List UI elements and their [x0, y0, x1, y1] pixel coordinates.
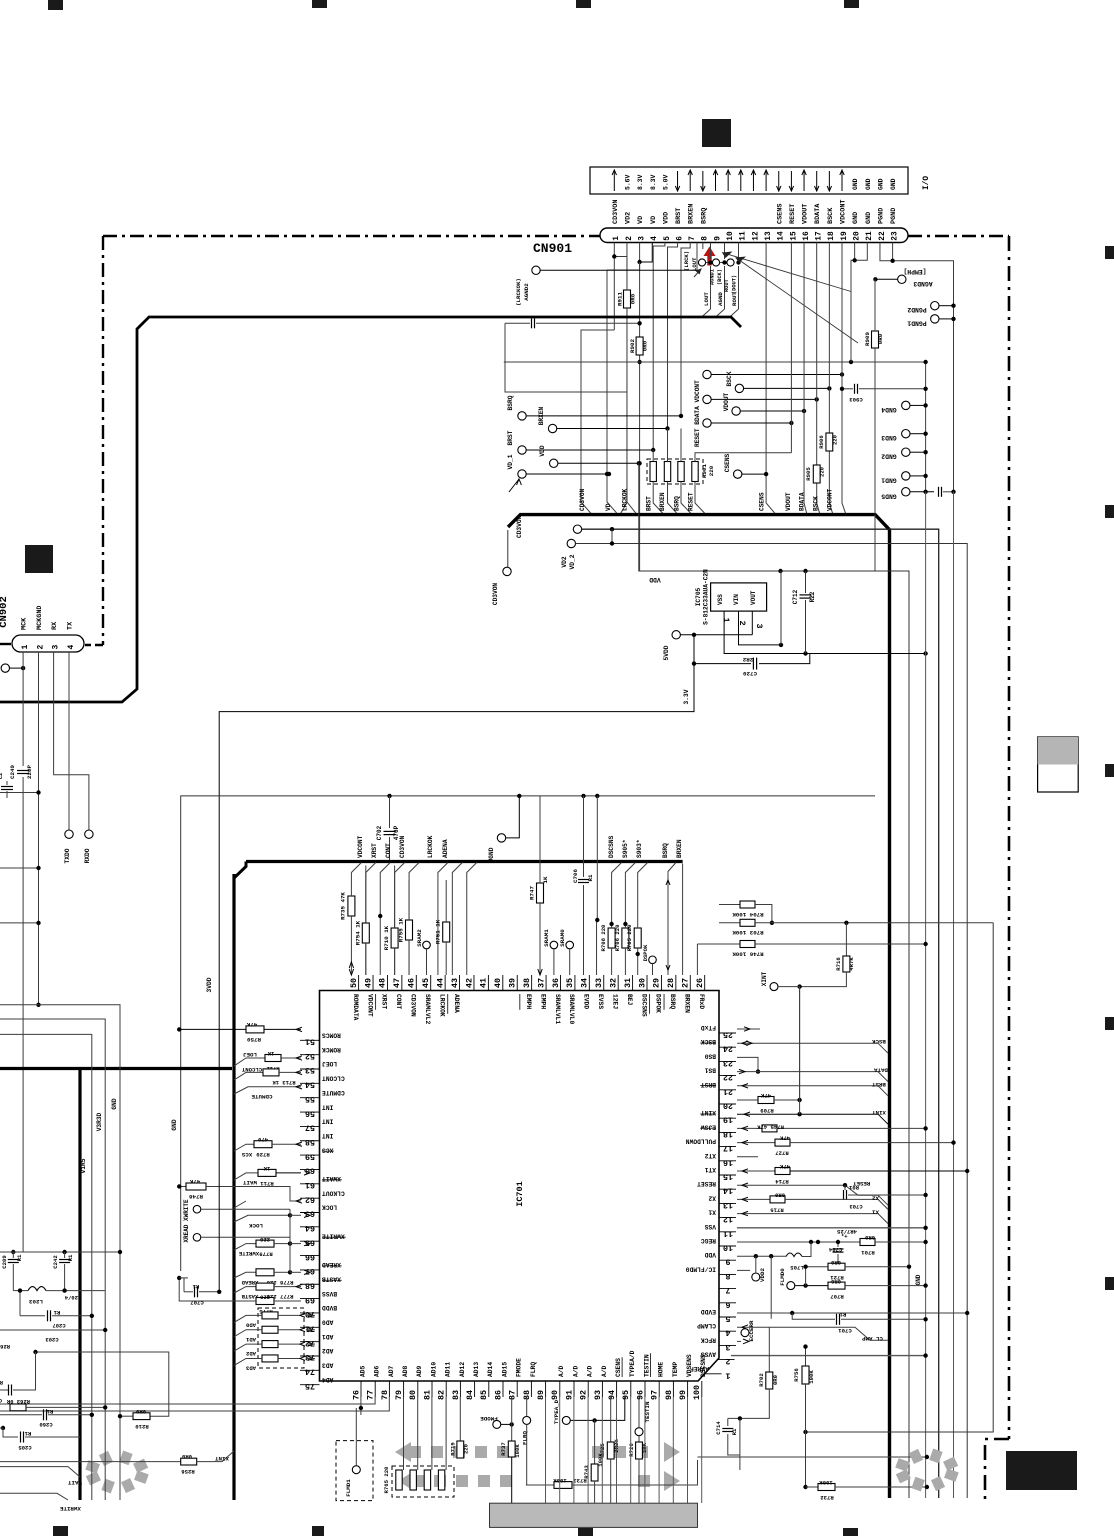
svg-text:XT2: XT2 — [704, 1152, 716, 1159]
svg-text:AD8: AD8 — [402, 1365, 409, 1377]
svg-text:14: 14 — [723, 1186, 733, 1196]
svg-text:INT: INT — [322, 1132, 334, 1139]
svg-text:A/D: A/D — [601, 1365, 608, 1377]
svg-text:40: 40 — [493, 978, 503, 988]
wire CN901 pin16 to bus — [804, 243, 807, 515]
svg-text:100K: 100K — [808, 1370, 815, 1384]
node TESTIN — [635, 1428, 643, 1436]
svg-text:R754 1K: R754 1K — [354, 920, 361, 945]
svg-text:V1R5: V1R5 — [80, 1158, 87, 1173]
wire pin44 LRCKOK — [438, 863, 448, 976]
wire MCK lower — [22, 777, 24, 1252]
svg-text:CD3VON: CD3VON — [492, 583, 499, 606]
svg-text:AD9: AD9 — [416, 1365, 423, 1377]
resistor R765 element — [396, 1470, 402, 1490]
dash-dot border top right — [908, 235, 1009, 237]
svg-text:47K: 47K — [189, 1178, 200, 1185]
node FLMD1 — [352, 1466, 360, 1474]
node left of CN902 — [1, 664, 9, 672]
svg-text:41: 41 — [479, 978, 489, 988]
svg-text:61: 61 — [305, 1180, 315, 1190]
svg-text:RX: RX — [51, 621, 59, 630]
svg-text:XWRITE: XWRITE — [59, 1505, 80, 1512]
node PGND1 — [931, 315, 939, 323]
svg-text:LRCKOK: LRCKOK — [427, 835, 434, 858]
IC701 pin 98 — [672, 1381, 674, 1397]
capacitor GND5 — [938, 487, 940, 497]
svg-text:IC705: IC705 — [695, 587, 702, 606]
svg-text:AGND2: AGND2 — [523, 283, 530, 301]
node TXDO — [65, 830, 73, 838]
svg-text:AGND: AGND — [717, 292, 724, 306]
svg-text:15: 15 — [723, 1172, 733, 1182]
IC701 pin 47 — [401, 975, 403, 991]
resistor R263 — [10, 1404, 26, 1411]
capacitor C703 R01 — [844, 1185, 846, 1190]
capacitor C712 R22 — [805, 571, 807, 593]
wire CLAMP to bus — [769, 1327, 888, 1340]
node VD_2 upper — [573, 525, 581, 533]
svg-text:DSPOK: DSPOK — [642, 944, 649, 961]
IC701 pin 97 — [658, 1381, 660, 1397]
svg-text:X2: X2 — [871, 1194, 878, 1201]
wire pin14 RESET — [737, 1185, 888, 1205]
node GND2 — [902, 448, 910, 456]
wire pin9 VDD — [737, 1255, 786, 1257]
svg-text:C712: C712 — [792, 589, 799, 604]
resistor R756 100K — [805, 1347, 807, 1366]
wire pin27 BRXEN — [682, 864, 684, 976]
arrow AD2 — [300, 1342, 305, 1346]
IC701 pin 99 — [687, 1381, 689, 1397]
wire BRXEN to bus — [668, 482, 679, 515]
wire horizontal y795.9 — [181, 795, 875, 797]
svg-text:X1: X1 — [708, 1209, 716, 1216]
svg-text:79: 79 — [394, 1390, 404, 1400]
I/O arrow pin 10 — [727, 171, 729, 191]
svg-text:R702: R702 — [758, 1373, 765, 1387]
svg-text:TXDO: TXDO — [64, 848, 71, 863]
svg-text:CDMUTE: CDMUTE — [322, 1089, 345, 1096]
svg-text:R1: R1 — [0, 1379, 3, 1386]
resistor R726 10K — [636, 1442, 643, 1459]
svg-text:AD7: AD7 — [388, 1365, 395, 1377]
wire pin5 EVDD — [737, 1312, 967, 1314]
wire x181 vertical — [180, 796, 182, 1272]
wire LOUT vertical — [710, 243, 712, 260]
svg-text:2: 2 — [36, 645, 45, 650]
svg-text:47K: 47K — [779, 1163, 790, 1170]
svg-text:0R0: 0R0 — [830, 1278, 841, 1285]
svg-text:AD11: AD11 — [445, 1362, 452, 1377]
wire pins22-23 — [880, 243, 954, 492]
svg-text:47: 47 — [392, 978, 402, 988]
svg-text:R1: R1 — [839, 1311, 846, 1318]
svg-text:R733: R733 — [573, 1477, 587, 1484]
svg-text:CDMUTE: CDMUTE — [251, 1093, 272, 1100]
svg-text:10: 10 — [723, 1243, 733, 1253]
bus2 thick line — [234, 862, 246, 879]
svg-text:33: 33 — [594, 978, 604, 988]
wire CN901 pin2 — [620, 243, 627, 515]
svg-text:12EJ: 12EJ — [611, 994, 618, 1009]
wire CN901 pin3 VD — [639, 243, 641, 271]
resistor R911 0R0 — [624, 290, 631, 308]
IC U IC701 outline — [320, 991, 720, 1382]
callout line 1 — [722, 253, 851, 292]
resistor R712 1K — [265, 1055, 281, 1062]
capacitor C208 — [0, 1389, 8, 1391]
svg-text:R727: R727 — [775, 1150, 788, 1157]
svg-text:4R7K: 4R7K — [848, 957, 855, 971]
wire left entry 1428 — [0, 1427, 3, 1429]
svg-text:VD2: VD2 — [561, 556, 568, 567]
svg-text:VD: VD — [650, 216, 658, 224]
svg-text:XINT: XINT — [701, 1109, 716, 1116]
svg-text:REGC: REGC — [701, 1237, 716, 1244]
wire BVDD 220 — [256, 1298, 274, 1305]
svg-text:42: 42 — [464, 978, 474, 988]
wire left entry — [0, 792, 39, 794]
svg-text:VDCONT: VDCONT — [366, 994, 373, 1017]
IC701 pin 38 — [531, 975, 533, 991]
svg-text:XWAIT: XWAIT — [322, 1175, 341, 1182]
IC701 pin 7 — [719, 1288, 736, 1290]
capacitor C250 left edge — [1, 786, 13, 788]
svg-text:BRXEN: BRXEN — [538, 406, 545, 425]
wire BRST to bus — [653, 482, 664, 515]
node GND5 — [902, 488, 910, 496]
wire FMODE — [501, 1423, 512, 1425]
svg-text:18: 18 — [723, 1129, 733, 1139]
wire FLMD0 up — [805, 1267, 807, 1286]
IC701 pin 17 — [719, 1146, 736, 1148]
IC701 pin 63 — [300, 1212, 320, 1214]
svg-text:5: 5 — [725, 1314, 730, 1324]
svg-text:64: 64 — [305, 1223, 315, 1233]
svg-text:TESTIN: TESTIN — [643, 1354, 650, 1377]
wire loop R210 — [36, 1352, 169, 1416]
svg-text:R735 47K: R735 47K — [340, 892, 347, 920]
svg-text:SRAM2: SRAM2 — [416, 929, 423, 947]
dash-dot border left — [102, 236, 104, 645]
resistor R765 element — [410, 1470, 416, 1490]
svg-text:WAIT: WAIT — [67, 1479, 81, 1486]
svg-text:BSCK: BSCK — [726, 371, 733, 386]
svg-text:(LRCKOK): (LRCKOK) — [515, 278, 522, 306]
resistor R706 220 — [622, 928, 629, 948]
node FLMD0 — [787, 1282, 795, 1290]
I/O arrow pin 12 — [752, 171, 754, 191]
resistor R906 220 — [826, 433, 833, 451]
resistor R711 1K — [258, 1169, 276, 1176]
svg-text:A/D: A/D — [587, 1365, 594, 1377]
inductor L705 — [786, 1253, 802, 1257]
svg-text:BRST: BRST — [871, 1081, 885, 1088]
svg-text:BSCK: BSCK — [827, 207, 835, 224]
svg-text:C205: C205 — [18, 1444, 32, 1451]
wire vertical — [953, 492, 955, 1498]
node BSCK — [735, 384, 743, 392]
resistor AD1 — [262, 1326, 278, 1333]
svg-text:89: 89 — [536, 1390, 546, 1400]
svg-text:R707: R707 — [830, 1293, 843, 1300]
IC701 pin 56 — [300, 1111, 320, 1113]
node ECCERR — [741, 1329, 749, 1337]
svg-text:ADENA: ADENA — [442, 839, 449, 858]
svg-text:R704 100K: R704 100K — [732, 911, 764, 918]
I/O arrow pin 7 — [689, 171, 691, 191]
wire IC705 VIN — [739, 611, 782, 645]
svg-text:35: 35 — [565, 978, 575, 988]
gray circle stamp right — [944, 1468, 959, 1482]
resistor group R775 220 AD0-AD3 — [258, 1308, 304, 1368]
I/O arrow pin 13 — [765, 171, 767, 191]
wire pins20-21 — [854, 243, 856, 261]
svg-text:220: 220 — [831, 434, 838, 445]
svg-text:BRXEN: BRXEN — [676, 839, 683, 858]
black square marker left — [25, 545, 53, 573]
svg-text:PGND1: PGND1 — [907, 320, 926, 327]
resistor R704 100K — [719, 904, 740, 906]
svg-text:AD0: AD0 — [322, 1319, 334, 1326]
svg-text:AD5: AD5 — [359, 1365, 366, 1377]
svg-text:C703: C703 — [849, 1203, 863, 1210]
svg-text:87: 87 — [508, 1390, 518, 1400]
dash-dot stub left edge — [0, 643, 11, 645]
svg-text:14: 14 — [778, 231, 786, 241]
svg-text:VDD2: VDD2 — [759, 1268, 766, 1282]
resistor R778 220 — [256, 1269, 274, 1276]
node PGND2 — [931, 302, 939, 310]
wire pin3 RFCK ECCERR — [737, 1340, 741, 1342]
svg-text:*+: *+ — [841, 1233, 848, 1240]
svg-text:23: 23 — [892, 231, 900, 241]
svg-text:R709: R709 — [760, 1107, 774, 1114]
node GND3 — [902, 430, 910, 438]
svg-text:1K: 1K — [542, 876, 549, 883]
svg-text:BSRQ: BSRQ — [700, 208, 708, 224]
svg-text:C704: C704 — [828, 1246, 842, 1253]
node RXDO — [85, 830, 93, 838]
svg-text:29: 29 — [652, 978, 662, 988]
IC701 pin 42 — [473, 975, 475, 991]
dash-dot border left jog to CN902 — [85, 644, 103, 646]
svg-text:CN901: CN901 — [533, 241, 572, 256]
svg-text:R705 220: R705 220 — [626, 924, 633, 951]
node VDD2 — [752, 1273, 760, 1281]
wire XINT down — [799, 987, 801, 1100]
svg-text:86: 86 — [493, 1390, 503, 1400]
svg-text:RESET: RESET — [697, 1180, 716, 1187]
wire TESTIN — [638, 1397, 640, 1428]
node SRAM2 — [423, 941, 431, 949]
node TYPEA_D — [562, 1416, 570, 1424]
IC701 pin 43 — [459, 975, 461, 991]
svg-text:ECCERR: ECCERR — [748, 1320, 755, 1341]
IC701 pin 75 — [300, 1384, 320, 1386]
wire CN901 pin17 to bus — [817, 243, 820, 515]
svg-text:ADENA: ADENA — [453, 994, 460, 1013]
svg-text:39: 39 — [508, 978, 518, 988]
svg-text:8: 8 — [725, 1271, 730, 1281]
svg-text:220: 220 — [462, 1443, 469, 1454]
IC701 pin 84 — [474, 1381, 476, 1397]
IC701 pin 13 — [719, 1202, 736, 1204]
svg-text:BRXEN: BRXEN — [688, 204, 696, 224]
svg-text:44: 44 — [435, 978, 445, 988]
svg-text:R715: R715 — [770, 1206, 784, 1213]
svg-text:TYPEA/D: TYPEA/D — [629, 1350, 636, 1377]
svg-text:BRST: BRST — [645, 496, 652, 511]
svg-text:3VDD: 3VDD — [206, 977, 213, 992]
svg-text:3: 3 — [725, 1342, 730, 1352]
IC701 pin 27 — [689, 975, 691, 991]
svg-text:R701: R701 — [861, 1249, 875, 1256]
resistor R725 2R2K — [610, 1397, 612, 1442]
wire pin18 EJSW — [737, 1127, 762, 1129]
svg-text:BVDD: BVDD — [322, 1304, 337, 1311]
svg-text:V3R3D: V3R3D — [96, 1112, 103, 1131]
wire pin42 — [467, 863, 477, 976]
capacitor C714 R1 — [727, 1418, 729, 1426]
I/O arrow pin 19 — [841, 171, 843, 191]
capacitor C209 R1 — [11, 1250, 15, 1254]
resistor R751 1K — [443, 922, 450, 942]
IC701 pin 15 — [719, 1174, 736, 1176]
svg-text:13: 13 — [765, 231, 773, 241]
wire 3.3V — [219, 664, 694, 1150]
svg-text:83: 83 — [451, 1390, 461, 1400]
capacitor C203 — [0, 1329, 105, 1331]
svg-text:GND5: GND5 — [881, 492, 897, 499]
IC701 pin 22 — [719, 1075, 736, 1077]
svg-text:DSPOK: DSPOK — [655, 994, 662, 1013]
svg-text:220: 220 — [819, 466, 826, 477]
resistor group R765 220 — [392, 1466, 454, 1497]
svg-text:R745 47K: R745 47K — [757, 1123, 784, 1130]
svg-text:6: 6 — [725, 1299, 730, 1309]
node RESET2 — [703, 419, 711, 427]
svg-text:49: 49 — [363, 978, 373, 988]
svg-text:CONT: CONT — [385, 843, 392, 858]
IC701 pin 85 — [488, 1381, 490, 1397]
svg-text:43: 43 — [450, 978, 460, 988]
dash-dot border right — [1008, 236, 1011, 1439]
svg-text:VDCONT: VDCONT — [840, 200, 848, 224]
IC701 pin 48 — [386, 975, 388, 991]
svg-text:(DOUT): (DOUT) — [732, 275, 738, 294]
wire loop left — [505, 323, 627, 392]
svg-text:19: 19 — [841, 231, 849, 241]
node XINT — [770, 983, 778, 991]
bus2 horizontal bottom — [0, 1067, 232, 1070]
svg-text:VDSENS: VDSENS — [686, 1354, 693, 1377]
dash-dot border right jog — [985, 1439, 1009, 1500]
svg-text:CL AMP: CL AMP — [861, 1335, 882, 1342]
svg-text:81: 81 — [422, 1390, 432, 1400]
svg-text:21: 21 — [866, 231, 874, 241]
wire pin15 XT1 R714 — [737, 1170, 775, 1172]
svg-text:I/O: I/O — [923, 176, 931, 190]
IC701 pin 6 — [719, 1302, 736, 1304]
svg-text:CN902: CN902 — [0, 596, 10, 628]
resistor network R901 220 — [647, 459, 703, 484]
svg-text:L203: L203 — [29, 1298, 43, 1305]
IC701 pin 55 — [300, 1097, 320, 1099]
svg-text:RXDO: RXDO — [84, 848, 91, 863]
svg-text:3: 3 — [754, 623, 764, 628]
svg-text:BRST: BRST — [675, 208, 683, 224]
svg-text:37: 37 — [536, 978, 546, 988]
svg-text:XINT: XINT — [215, 1455, 229, 1462]
wire CN901 pin15 — [790, 243, 792, 453]
svg-text:BSCK: BSCK — [701, 1038, 716, 1045]
svg-text:4: 4 — [67, 645, 76, 650]
node DSPOK — [649, 956, 657, 964]
svg-text:16: 16 — [723, 1157, 733, 1167]
node BDATA — [703, 395, 711, 403]
svg-text:17: 17 — [816, 231, 824, 241]
wire CN902 pin1 MCK — [22, 652, 24, 766]
wire 219 vertical lower — [218, 1150, 220, 1292]
svg-text:FLMD0: FLMD0 — [779, 1268, 786, 1286]
IC701 pin 77 — [374, 1381, 376, 1397]
svg-text:18: 18 — [828, 231, 836, 241]
I/O arrow pin 8 — [702, 171, 704, 191]
svg-text:9: 9 — [725, 1257, 730, 1267]
wire LOEJ — [234, 1058, 265, 1066]
svg-text:X2: X2 — [708, 1194, 716, 1201]
connector CN901 — [600, 228, 908, 243]
svg-text:68: 68 — [305, 1280, 315, 1290]
wire TYPEA_D — [571, 1397, 625, 1420]
svg-text:FTxD: FTxD — [701, 1024, 716, 1031]
svg-text:94: 94 — [607, 1390, 617, 1400]
svg-text:CLCONT: CLCONT — [241, 1066, 262, 1073]
svg-text:3: 3 — [51, 645, 60, 650]
svg-text:24: 24 — [723, 1044, 733, 1054]
svg-text:4: 4 — [725, 1328, 730, 1338]
IC701 pin 71 — [300, 1326, 320, 1328]
node ROUT — [727, 259, 734, 266]
svg-text:VD_2: VD_2 — [569, 554, 576, 569]
IC701 pin 40 — [502, 975, 504, 991]
svg-text:47K: 47K — [760, 1092, 771, 1099]
svg-text:R747: R747 — [529, 886, 536, 900]
wire CN902 pin3 RX — [54, 652, 89, 830]
svg-text:X1: X1 — [871, 1209, 878, 1216]
svg-text:2R2: 2R2 — [742, 656, 753, 663]
svg-text:XASTB: XASTB — [322, 1275, 341, 1282]
resistor R720 470 — [254, 1141, 272, 1148]
svg-text:VD: VD — [637, 216, 645, 224]
IC701 pin 58 — [300, 1140, 320, 1142]
IC701 pin 2 — [718, 1359, 735, 1361]
IC701 pin 50 — [358, 975, 360, 991]
IC701 pin 37 — [545, 975, 547, 991]
svg-text:AD13: AD13 — [473, 1362, 480, 1377]
svg-text:R01: R01 — [848, 1184, 859, 1191]
svg-text:50: 50 — [349, 978, 359, 988]
svg-text:INT: INT — [322, 1103, 334, 1110]
svg-text:R750: R750 — [247, 1036, 261, 1043]
resistor R708 220 — [608, 928, 615, 948]
svg-text:23: 23 — [723, 1058, 733, 1068]
capacitor C903 — [854, 384, 856, 394]
svg-text:3.3V: 3.3V — [683, 689, 690, 704]
svg-text:8: 8 — [702, 236, 710, 241]
